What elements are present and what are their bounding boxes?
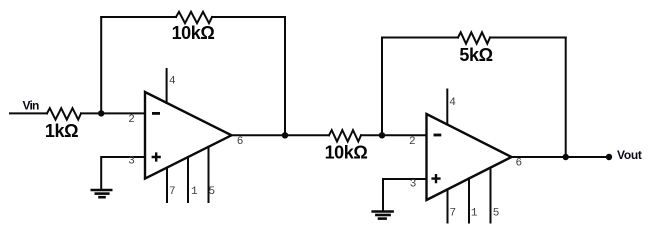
U1 inverting input minus symbol [152, 112, 160, 115]
wire feedback 2 top left segment [382, 37, 458, 39]
wire U2 pin 7 lead [447, 189, 449, 222]
ground symbol GND2 [371, 212, 394, 219]
svg-text:1kΩ: 1kΩ [45, 121, 78, 141]
wire feedback 1 top left segment [101, 16, 176, 18]
svg-text:4: 4 [449, 97, 456, 109]
svg-text:2: 2 [128, 114, 135, 126]
node junction dot: input node of U1 [98, 110, 104, 116]
node junction dot: U1 output / feedback 1 [282, 132, 288, 138]
node junction dot: U2 output / feedback 2 [563, 154, 569, 160]
resistor R1 1kΩ (input, zigzag) [47, 108, 81, 119]
svg-text:7: 7 [169, 186, 176, 198]
wire U1 pin 1 lead [187, 157, 189, 202]
svg-text:Vout: Vout [617, 148, 642, 162]
wire U1 pin 3 to ground [101, 157, 144, 189]
svg-text:10kΩ: 10kΩ [325, 143, 368, 163]
op-amp U2 triangle [427, 114, 512, 200]
wire feedback 2 vertical down to U2 output [565, 38, 567, 158]
wire U1 pin 4 power lead [166, 69, 168, 103]
ground symbol GND1 [91, 190, 113, 197]
wire U1 pin 7 lead [166, 168, 168, 203]
resistor R3 10kΩ (interstage, zigzag) [329, 130, 361, 141]
op-amp U1 triangle [145, 92, 232, 179]
svg-text:5: 5 [493, 207, 500, 219]
node terminal dot: Vout [606, 154, 612, 160]
wire feedback 1 vertical down to U1 output [284, 17, 286, 135]
wire U2 pin 4 power lead [446, 90, 448, 125]
wire R3 to U2 pin 2 [361, 134, 427, 136]
wire feedback 1 top right segment [212, 16, 285, 18]
svg-text:5kΩ: 5kΩ [459, 45, 492, 65]
svg-text:6: 6 [237, 136, 244, 148]
U2 inverting input minus symbol [434, 134, 442, 137]
wire U1 output to R3 [232, 134, 330, 136]
svg-text:6: 6 [515, 158, 522, 170]
svg-text:3: 3 [128, 156, 135, 168]
wire U2 pin 3 to ground [383, 179, 427, 210]
U2 non-inverting input plus symbol [431, 174, 440, 183]
wire U2 pin 5 lead [490, 168, 492, 223]
wire Vin input lead [10, 112, 47, 114]
wire R1 to op-amp U1 pin 2 [81, 112, 145, 114]
wire feedback 2 vertical up from U2 input node [381, 38, 383, 136]
wire feedback 2 top right segment [490, 37, 566, 39]
wire feedback 1 vertical up from input node [100, 17, 102, 113]
wire U2 output to Vout terminal [512, 156, 610, 158]
U1 non-inverting input plus symbol [152, 152, 161, 161]
svg-text:2: 2 [409, 136, 416, 148]
svg-text:7: 7 [449, 207, 456, 219]
svg-text:10kΩ: 10kΩ [172, 23, 215, 43]
resistor R4 5kΩ (feedback of U2, zigzag) [458, 32, 490, 43]
svg-text:1: 1 [471, 207, 478, 219]
svg-text:3: 3 [410, 178, 417, 190]
svg-text:5: 5 [208, 186, 215, 198]
wire U1 pin 5 lead [208, 147, 210, 202]
resistor R2 10kΩ (feedback of U1, zigzag) [176, 12, 212, 23]
svg-text:4: 4 [169, 76, 176, 88]
wire U2 pin 1 lead [468, 179, 470, 223]
svg-text:Vin: Vin [22, 98, 39, 112]
node junction dot: U2 input node [379, 132, 385, 138]
svg-text:1: 1 [191, 186, 198, 198]
